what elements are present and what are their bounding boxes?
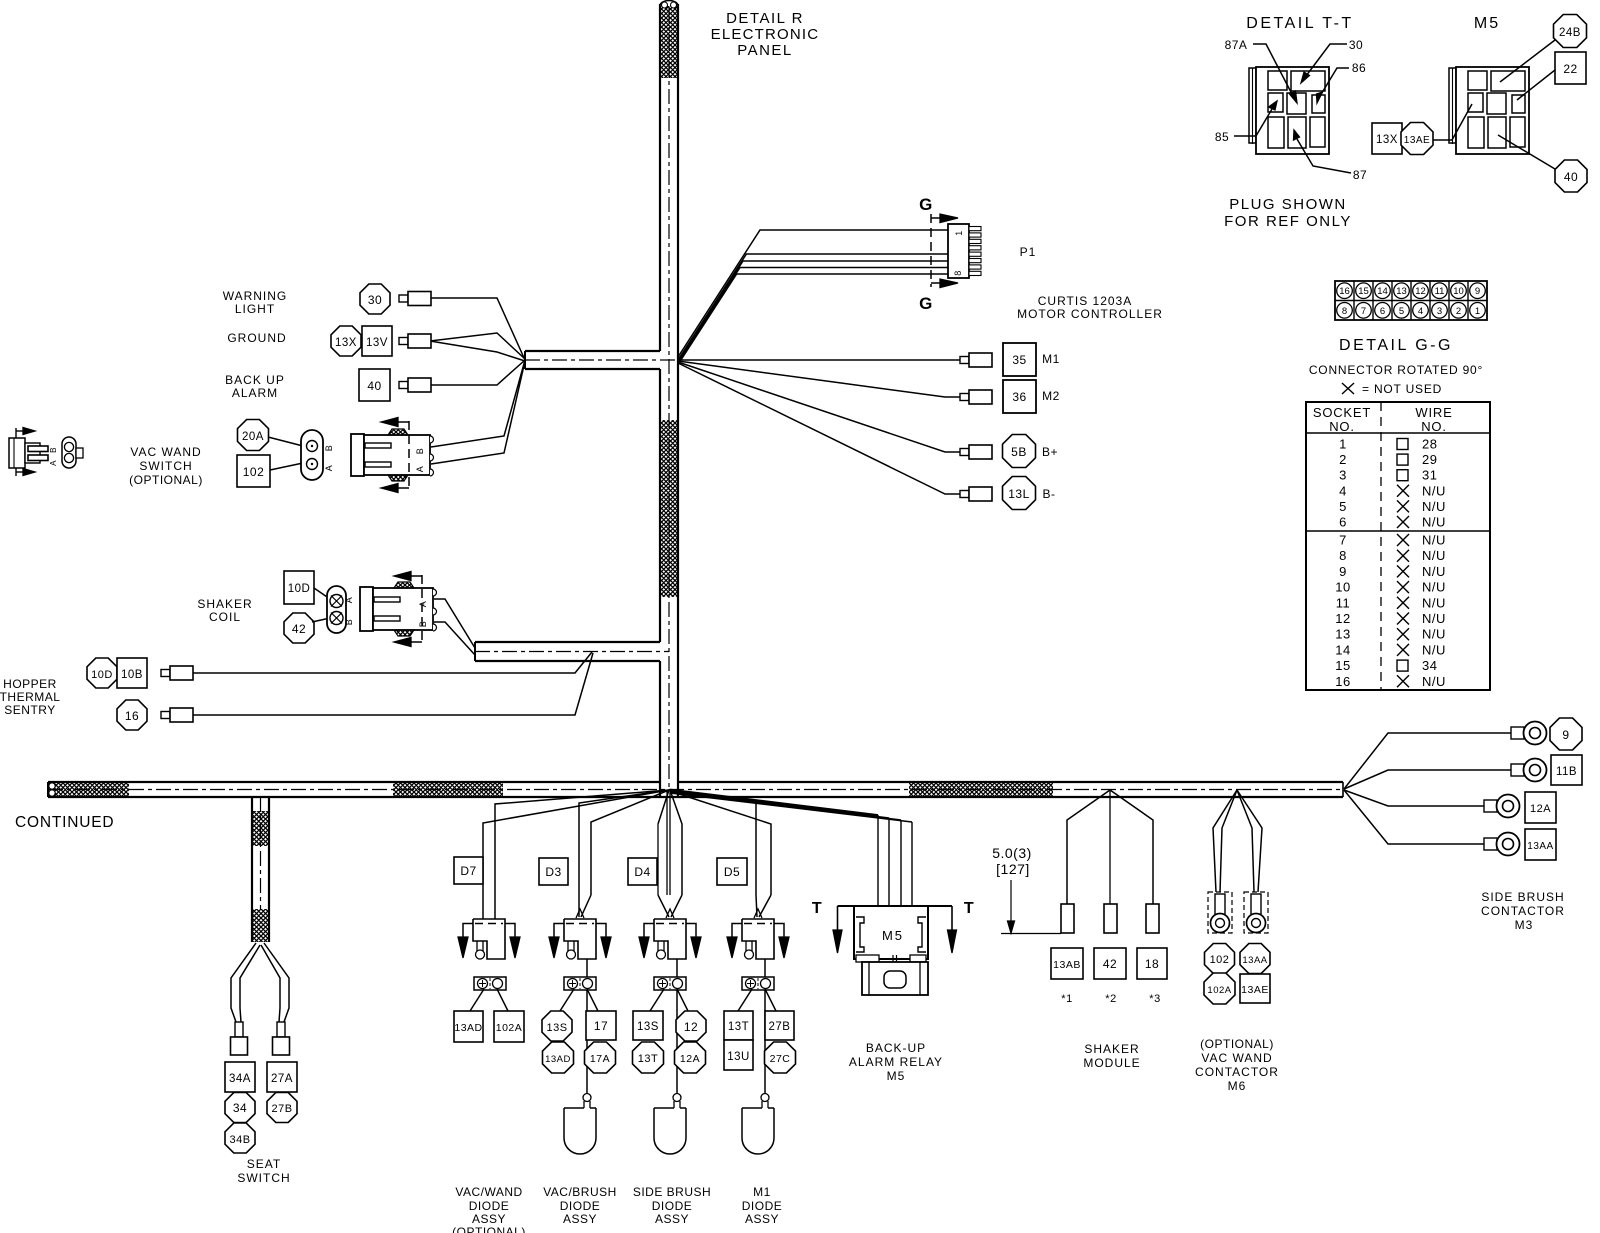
- wire pair to ground 13V: [430, 333, 525, 361]
- seat switch drop tube: [252, 797, 269, 942]
- label CONNECTOR ROTATED 90: [1309, 363, 1483, 377]
- label VAC/WAND DIODE ASSY (OPTIONAL): [452, 1185, 526, 1233]
- terminal 13S box D4: [633, 1011, 663, 1040]
- svg-text:87A: 87A: [1225, 38, 1248, 52]
- terminal 35 box: [1003, 343, 1036, 376]
- terminal 13X octagon and 13V box: [331, 326, 392, 356]
- svg-text:16: 16: [125, 709, 139, 723]
- svg-text:(OPTIONAL): (OPTIONAL): [129, 473, 203, 487]
- wire to 13T D5: [738, 989, 752, 1011]
- label DETAIL G-G: [1339, 337, 1453, 354]
- svg-text:13U: 13U: [727, 1051, 750, 1063]
- callout line 13AE: [1433, 104, 1472, 140]
- svg-text:11: 11: [1435, 286, 1445, 297]
- terminal 13AA octagon: [1240, 944, 1270, 974]
- svg-text:(OPTIONAL): (OPTIONAL): [452, 1225, 526, 1233]
- svg-text:N/U: N/U: [1422, 499, 1446, 514]
- svg-text:35: 35: [1012, 353, 1026, 367]
- ring terminal 12A: [1484, 795, 1520, 818]
- spade for 36: [960, 390, 992, 404]
- svg-text:D5: D5: [724, 865, 740, 879]
- svg-text:SENTRY: SENTRY: [4, 703, 55, 717]
- svg-text:A: A: [344, 597, 354, 604]
- terminal 40 box: [359, 369, 390, 401]
- svg-text:7: 7: [1339, 533, 1347, 548]
- label HOPPER THERMAL SENTRY: [0, 677, 60, 717]
- shaker oval connector: [327, 586, 346, 633]
- wires junction to D7: [483, 790, 669, 919]
- svg-text:42: 42: [292, 622, 306, 636]
- label D7 box: [454, 857, 483, 884]
- svg-text:LIGHT: LIGHT: [235, 302, 275, 316]
- svg-text:N/U: N/U: [1422, 580, 1446, 595]
- terminal 42 box shaker: [1094, 948, 1126, 979]
- svg-text:16: 16: [1335, 674, 1350, 689]
- main harness tube: [48, 782, 1343, 797]
- labels A B at oval: [324, 445, 334, 472]
- svg-text:VAC/WAND: VAC/WAND: [455, 1185, 522, 1199]
- svg-text:= NOT USED: = NOT USED: [1362, 382, 1442, 396]
- svg-text:B+: B+: [1042, 445, 1058, 459]
- terminal 10D box shaker: [284, 571, 314, 604]
- wires junction to D4: [667, 790, 682, 895]
- shaker module pin 1: [1061, 904, 1074, 933]
- svg-text:13AD: 13AD: [545, 1054, 571, 1065]
- vac wand mating connector: [351, 429, 434, 481]
- callout line 40: [1498, 135, 1555, 169]
- svg-text:13AB: 13AB: [1053, 959, 1081, 971]
- terminal 102A box: [494, 1011, 524, 1042]
- svg-text:ALARM RELAY: ALARM RELAY: [849, 1055, 943, 1069]
- wire to 13S D4: [650, 989, 664, 1011]
- svg-text:36: 36: [1012, 390, 1026, 404]
- label CURTIS 1203A MOTOR CONTROLLER: [1017, 294, 1163, 321]
- terminal 13AA box: [1525, 829, 1556, 860]
- svg-text:102A: 102A: [496, 1022, 523, 1034]
- wire to 17: [587, 989, 598, 1011]
- svg-text:SWITCH: SWITCH: [237, 1171, 290, 1185]
- callout 85: [1215, 101, 1277, 144]
- svg-text:N/U: N/U: [1422, 515, 1446, 530]
- terminal 30 octagon: [360, 284, 390, 314]
- svg-text:20A: 20A: [242, 431, 264, 443]
- svg-text:D3: D3: [545, 865, 561, 879]
- terminal 11B box: [1551, 755, 1582, 785]
- diode bulb D5: [742, 1094, 774, 1155]
- svg-text:10B: 10B: [121, 669, 143, 681]
- svg-text:BACK UP: BACK UP: [225, 373, 285, 387]
- svg-text:5B: 5B: [1011, 445, 1027, 459]
- terminal 36 box: [1003, 380, 1036, 413]
- svg-text:30: 30: [368, 293, 382, 307]
- svg-text:FOR REF ONLY: FOR REF ONLY: [1224, 213, 1352, 230]
- svg-text:1: 1: [1339, 437, 1347, 452]
- terminal 27C octagon: [765, 1042, 796, 1073]
- terminal 13U box: [724, 1040, 753, 1070]
- svg-text:B: B: [418, 621, 428, 628]
- svg-text:A: A: [324, 465, 334, 472]
- svg-text:SIDE BRUSH: SIDE BRUSH: [1481, 890, 1564, 904]
- wire junction to 36: [678, 361, 960, 397]
- terminal 34A box: [225, 1062, 255, 1092]
- terminal 34 octagon: [225, 1093, 255, 1123]
- svg-text:G: G: [919, 294, 933, 313]
- seat drop centerline: [260, 797, 262, 909]
- svg-text:9: 9: [1339, 564, 1347, 579]
- spade for 5B: [960, 445, 992, 459]
- svg-text:1: 1: [954, 230, 964, 236]
- svg-text:VAC/BRUSH: VAC/BRUSH: [543, 1185, 617, 1199]
- svg-text:13AD: 13AD: [454, 1022, 482, 1034]
- terminal 27B octagon: [267, 1093, 297, 1123]
- wire junction to 13L: [678, 363, 960, 494]
- svg-text:B: B: [324, 445, 334, 452]
- main harness centerline: [48, 789, 1343, 791]
- label SHAKER MODULE: [1083, 1042, 1140, 1070]
- svg-text:22: 22: [1563, 62, 1577, 76]
- svg-text:PLUG SHOWN: PLUG SHOWN: [1229, 196, 1347, 213]
- label SIDE BRUSH DIODE ASSY: [633, 1185, 711, 1226]
- main harness hatched sheath segments: [48, 782, 1053, 797]
- svg-text:DETAIL G-G: DETAIL G-G: [1339, 337, 1453, 354]
- label B-: [1043, 487, 1056, 501]
- svg-text:[127]: [127]: [996, 861, 1030, 877]
- diode bulb D3: [564, 1094, 596, 1155]
- terminal 102A octagon: [1204, 973, 1235, 1004]
- callout 10D to shaker connector: [314, 588, 330, 599]
- callout line 20A to connector: [268, 437, 303, 446]
- svg-text:13AE: 13AE: [1404, 135, 1430, 146]
- svg-text:5: 5: [1339, 499, 1347, 514]
- m6 contactor wires left: [1213, 790, 1237, 892]
- svg-text:DIODE: DIODE: [560, 1199, 601, 1213]
- label VAC/BRUSH DIODE ASSY: [543, 1185, 617, 1226]
- svg-text:9: 9: [1475, 286, 1480, 297]
- vertical harness tube: [660, 1, 678, 798]
- terminal 12 octagon: [676, 1011, 706, 1041]
- wire to diode bulb D3: [586, 959, 588, 1093]
- terminal 9 octagon: [1550, 718, 1582, 750]
- terminal 13AD octagon: [543, 1042, 574, 1073]
- svg-text:8: 8: [1342, 306, 1347, 317]
- label CONTINUED: [15, 814, 114, 831]
- label SHAKER COIL: [197, 597, 252, 624]
- label PLUG SHOWN FOR REF ONLY: [1224, 196, 1352, 230]
- svg-text:COIL: COIL: [209, 610, 241, 624]
- svg-text:N/U: N/U: [1422, 548, 1446, 563]
- svg-text:M2: M2: [1042, 389, 1060, 403]
- svg-text:14: 14: [1377, 286, 1388, 297]
- svg-text:85: 85: [1215, 130, 1229, 144]
- svg-text:PANEL: PANEL: [737, 42, 793, 59]
- wire to diode bulb D5: [764, 959, 766, 1093]
- svg-text:34A: 34A: [229, 1073, 251, 1085]
- svg-text:102: 102: [243, 465, 265, 479]
- svg-text:34B: 34B: [229, 1134, 250, 1146]
- label P1: [1020, 245, 1037, 259]
- terminal 13S octagon: [542, 1011, 572, 1041]
- label M2: [1042, 389, 1060, 403]
- wire to vac wand switch pin B: [431, 360, 525, 447]
- svg-text:6: 6: [1380, 306, 1385, 317]
- section marker G bottom: [919, 279, 958, 313]
- terminal 12A box: [1525, 792, 1556, 823]
- wire shaker connector B to branch: [434, 622, 475, 655]
- svg-text:HOPPER: HOPPER: [3, 677, 57, 691]
- svg-text:M1: M1: [1042, 352, 1060, 366]
- label OPTIONAL VAC WAND CONTACTOR M6: [1195, 1037, 1279, 1093]
- svg-text:WARNING: WARNING: [223, 289, 288, 303]
- label WARNING LIGHT: [223, 289, 288, 316]
- svg-text:27B: 27B: [769, 1021, 791, 1033]
- svg-text:16: 16: [1339, 286, 1350, 297]
- svg-text:40: 40: [367, 379, 381, 393]
- svg-text:13: 13: [1335, 627, 1350, 642]
- section marker G top: [919, 195, 958, 287]
- svg-text:8: 8: [1339, 548, 1347, 563]
- wire to ring 11B: [1344, 770, 1511, 789]
- connector P1: [948, 224, 981, 278]
- svg-text:CONTACTOR: CONTACTOR: [1481, 904, 1565, 918]
- vac/brush diode connector D3: [549, 919, 611, 959]
- funnel D4: [658, 790, 682, 918]
- m1 diode connector D5: [727, 919, 789, 959]
- terminal 16 octagon: [117, 700, 147, 730]
- svg-text:B: B: [415, 448, 425, 455]
- wire to ring 9: [1344, 733, 1511, 789]
- spade for 35: [960, 353, 992, 367]
- wire to warning light 30: [428, 298, 525, 360]
- svg-text:13S: 13S: [637, 1021, 659, 1033]
- side brush diode 2-pin connector: [654, 977, 686, 990]
- wire to 13AD: [470, 989, 484, 1011]
- svg-text:13T: 13T: [728, 1021, 749, 1033]
- spade terminal for 13V: [399, 334, 431, 348]
- svg-text:12A: 12A: [680, 1053, 700, 1065]
- warning light branch tube: [525, 351, 660, 369]
- funnel D3: [576, 895, 591, 918]
- svg-text:27B: 27B: [271, 1103, 292, 1115]
- svg-text:15: 15: [1335, 658, 1350, 673]
- svg-text:A: A: [418, 601, 428, 608]
- terminal 40 octagon detail: [1555, 160, 1587, 192]
- svg-text:102A: 102A: [1207, 985, 1231, 996]
- terminal 13T box: [724, 1011, 753, 1040]
- wire to 102A: [497, 989, 508, 1011]
- G-G pin header: [1335, 281, 1487, 320]
- label M1 DIODE ASSY: [742, 1185, 783, 1226]
- ring terminal 13AA: [1484, 833, 1520, 856]
- back-up alarm relay M5 body: [854, 906, 928, 995]
- svg-text:24B: 24B: [1559, 27, 1581, 39]
- terminal 13AD box: [454, 1011, 483, 1042]
- svg-text:ASSY: ASSY: [563, 1212, 597, 1226]
- svg-text:N/U: N/U: [1422, 627, 1446, 642]
- label SEAT SWITCH: [237, 1157, 290, 1185]
- svg-text:T: T: [812, 900, 822, 917]
- ring terminal 11B: [1511, 759, 1547, 782]
- svg-text:DIODE: DIODE: [652, 1199, 693, 1213]
- shaker branch tube: [475, 642, 660, 661]
- ring terminal 9: [1511, 722, 1547, 745]
- seat switch wires left pair: [231, 943, 260, 1022]
- svg-text:(OPTIONAL): (OPTIONAL): [1200, 1037, 1274, 1051]
- label VAC WAND SWITCH (OPTIONAL): [129, 445, 203, 487]
- terminal 13T octagon: [633, 1042, 664, 1073]
- svg-text:10D: 10D: [288, 583, 311, 595]
- wire to ring 12A: [1344, 790, 1484, 806]
- wire junction to 5B: [678, 362, 960, 452]
- spade for 10B: [161, 666, 193, 680]
- svg-text:10: 10: [1335, 580, 1350, 595]
- svg-text:13AA: 13AA: [1242, 955, 1267, 966]
- svg-text:11: 11: [1336, 595, 1351, 610]
- svg-text:M1: M1: [753, 1185, 771, 1199]
- label BACK-UP ALARM RELAY M5: [849, 1041, 943, 1083]
- svg-text:M3: M3: [1515, 918, 1534, 932]
- svg-text:*3: *3: [1149, 993, 1160, 1005]
- m6 ring terminal left: [1208, 892, 1232, 933]
- terminal 27A box: [267, 1062, 297, 1092]
- wire to diode bulb D4: [676, 959, 678, 1093]
- label D4 box: [628, 858, 657, 885]
- svg-text:12: 12: [1415, 286, 1426, 297]
- label BACK UP ALARM: [225, 373, 285, 400]
- label D3 box: [539, 858, 568, 885]
- svg-text:14: 14: [1335, 642, 1350, 657]
- svg-text:ELECTRONIC: ELECTRONIC: [711, 26, 820, 43]
- svg-text:SHAKER: SHAKER: [197, 597, 252, 611]
- svg-text:MODULE: MODULE: [1083, 1056, 1140, 1070]
- m1 diode 2-pin connector: [742, 977, 774, 990]
- vac/wand diode connector D7: [458, 919, 520, 959]
- callout line 22: [1517, 70, 1555, 100]
- svg-text:13V: 13V: [366, 337, 388, 349]
- svg-text:13X: 13X: [335, 337, 357, 349]
- svg-text:31: 31: [1422, 468, 1437, 483]
- dimension 5.0(3) [127]: [992, 845, 1061, 934]
- svg-text:NO.: NO.: [1421, 419, 1447, 434]
- seat switch wires right pair: [261, 943, 289, 1022]
- m6 ring terminal right: [1244, 892, 1268, 933]
- wire to vac wand switch pin A: [431, 361, 525, 464]
- svg-text:DIODE: DIODE: [742, 1199, 783, 1213]
- section marker T right: [928, 900, 974, 953]
- svg-text:VAC WAND: VAC WAND: [1201, 1051, 1272, 1065]
- svg-text:M5: M5: [1474, 15, 1500, 32]
- svg-text:SWITCH: SWITCH: [139, 459, 192, 473]
- wire to ring 13AA: [1344, 790, 1484, 844]
- svg-text:SIDE BRUSH: SIDE BRUSH: [633, 1185, 711, 1199]
- svg-text:N/U: N/U: [1422, 674, 1446, 689]
- wires junction to D3: [579, 790, 669, 895]
- svg-text:17: 17: [594, 1019, 608, 1033]
- wires junction to P1: [678, 230, 948, 365]
- terminal 17 box: [586, 1011, 616, 1040]
- wire to 13S: [560, 989, 574, 1011]
- far left connector pair: [9, 428, 83, 477]
- branch centerline: [525, 359, 678, 361]
- wire junction to 35: [678, 359, 960, 361]
- svg-text:ALARM: ALARM: [232, 386, 278, 400]
- svg-text:13T: 13T: [638, 1053, 658, 1065]
- wire to back up alarm 40: [428, 360, 525, 385]
- callout line 24B: [1500, 40, 1555, 82]
- svg-text:13AA: 13AA: [1527, 841, 1553, 852]
- svg-text:2: 2: [1456, 306, 1461, 317]
- terminal 27B box: [765, 1011, 794, 1040]
- side brush diode connector D4: [639, 919, 701, 959]
- terminal 18 box: [1137, 948, 1167, 979]
- terminal 24B octagon: [1554, 15, 1587, 48]
- svg-text:4: 4: [1339, 483, 1347, 498]
- terminal 42 octagon: [284, 613, 314, 643]
- svg-text:28: 28: [1422, 437, 1437, 452]
- spade terminal for 40: [399, 378, 431, 392]
- svg-text:B: B: [344, 619, 354, 626]
- terminal 22 box: [1555, 52, 1586, 84]
- label DETAIL R ELECTRONIC PANEL: [711, 10, 820, 59]
- shaker branch centerline: [475, 651, 669, 653]
- callout 87A: [1225, 38, 1297, 103]
- svg-text:12A: 12A: [1530, 803, 1551, 815]
- svg-text:SHAKER: SHAKER: [1084, 1042, 1139, 1056]
- terminal 10D octagon and 10B box: [87, 658, 147, 688]
- label B+: [1042, 445, 1058, 459]
- M5 relay feed wires: [878, 815, 912, 906]
- svg-text:34: 34: [233, 1101, 247, 1115]
- svg-text:3: 3: [1437, 306, 1442, 317]
- svg-text:N/U: N/U: [1422, 533, 1446, 548]
- section marker T left: [812, 900, 854, 953]
- funnel D5: [754, 895, 771, 918]
- wire bundle junction to M5 relay: [670, 790, 912, 822]
- vac/wand diode 2-pin connector: [474, 977, 506, 990]
- svg-text:ASSY: ASSY: [472, 1212, 506, 1226]
- svg-text:G: G: [919, 195, 933, 214]
- svg-text:13X: 13X: [1376, 134, 1398, 146]
- label M1: [1042, 352, 1060, 366]
- spade terminal for 30: [399, 292, 431, 306]
- label DETAIL T-T: [1246, 15, 1353, 32]
- callout 42 to shaker connector: [312, 618, 330, 622]
- vertical harness centerline: [668, 8, 670, 789]
- svg-text:13S: 13S: [546, 1022, 567, 1034]
- svg-text:18: 18: [1145, 957, 1159, 971]
- svg-text:13: 13: [1396, 286, 1407, 297]
- svg-text:102: 102: [1210, 954, 1230, 966]
- svg-text:17A: 17A: [590, 1053, 610, 1065]
- svg-text:13AE: 13AE: [1241, 984, 1269, 996]
- callout 87: [1294, 130, 1368, 182]
- label SIDE BRUSH CONTACTOR M3: [1481, 890, 1565, 932]
- svg-text:N/U: N/U: [1422, 642, 1446, 657]
- shaker module wires: [1067, 790, 1153, 904]
- svg-text:10D: 10D: [91, 669, 113, 681]
- wire to 12: [677, 989, 688, 1011]
- svg-text:BACK-UP: BACK-UP: [866, 1041, 926, 1055]
- svg-text:4: 4: [1418, 306, 1423, 317]
- detail M5 connector: [1449, 67, 1529, 154]
- svg-text:GROUND: GROUND: [227, 331, 286, 345]
- svg-text:5: 5: [1399, 306, 1404, 317]
- wire to 27B: [765, 989, 776, 1011]
- svg-text:ASSY: ASSY: [745, 1212, 779, 1226]
- svg-text:86: 86: [1352, 61, 1366, 75]
- svg-text:N/U: N/U: [1422, 564, 1446, 579]
- svg-text:CONTINUED: CONTINUED: [15, 814, 114, 831]
- label GROUND: [227, 331, 286, 345]
